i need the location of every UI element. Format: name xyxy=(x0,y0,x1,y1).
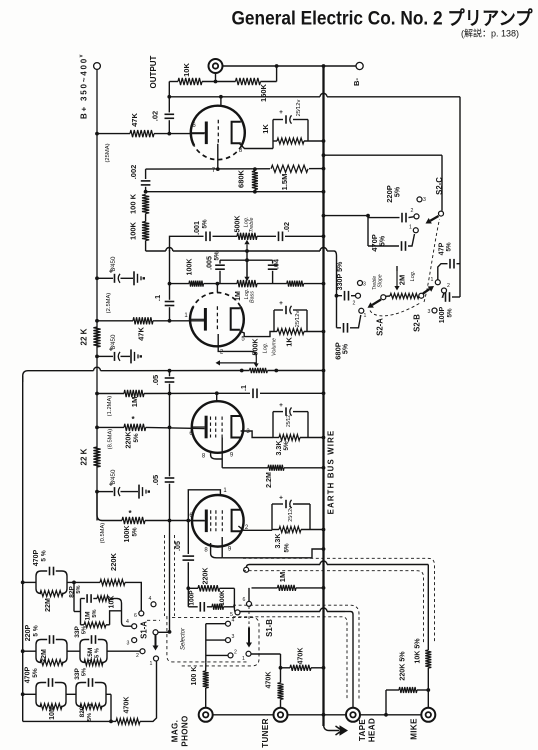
svg-text:2: 2 xyxy=(447,283,450,289)
wire B+ rail xyxy=(96,69,98,520)
wire tube1 plate-top stub xyxy=(220,97,222,106)
wire B- line xyxy=(223,65,360,67)
svg-text:2: 2 xyxy=(136,653,139,659)
svg-text:150K: 150K xyxy=(259,83,268,102)
TAPE HEAD terminal xyxy=(346,708,360,722)
switch contact S2-C 2 xyxy=(414,214,419,219)
svg-text:5%: 5% xyxy=(133,433,140,442)
MIKE terminal xyxy=(421,708,435,722)
svg-text:22 K: 22 K xyxy=(80,448,89,465)
svg-text:Slope: Slope xyxy=(378,274,384,287)
wire tube4 pin1 hook xyxy=(188,490,220,521)
resistor 220K tube4 grid xyxy=(188,587,198,589)
capacitor .02 coupling xyxy=(168,82,170,113)
capacitor .02 tone out xyxy=(278,232,280,242)
wire line B y251 xyxy=(146,250,166,252)
tape cable shield dashed xyxy=(233,605,359,700)
tape head cable core xyxy=(240,611,320,613)
svg-text:5%: 5% xyxy=(446,242,453,251)
wire grid line tube1 xyxy=(97,133,130,135)
capacitor 680P 5% xyxy=(337,327,342,329)
RIAA box 33P/1.5M xyxy=(80,640,107,663)
svg-text:S2-A: S2-A xyxy=(376,318,385,336)
wire RIAA bottom line xyxy=(23,720,116,722)
svg-text:v: v xyxy=(79,54,85,57)
svg-text:100K: 100K xyxy=(129,221,138,240)
svg-text:5%: 5% xyxy=(394,186,402,197)
resistor 10K 5% mike xyxy=(425,650,431,668)
mike cable shield dashed xyxy=(243,558,435,643)
wire line B to S2-A xyxy=(334,251,337,328)
switch arm S2-A xyxy=(372,300,381,305)
svg-text:330P 5%: 330P 5% xyxy=(336,261,344,290)
svg-text:1: 1 xyxy=(150,661,153,667)
svg-text:2.2M: 2.2M xyxy=(265,472,273,488)
svg-text:HEAD: HEAD xyxy=(368,718,377,742)
MAG PHONO terminal xyxy=(199,708,213,722)
svg-text:1: 1 xyxy=(431,277,434,283)
svg-text:5 %: 5 % xyxy=(95,648,101,658)
svg-text:470K: 470K xyxy=(123,696,131,714)
wire grid shield line x169.5 lower xyxy=(169,521,171,632)
svg-text:1M: 1M xyxy=(130,397,139,408)
dashed link S2-B to S2-C xyxy=(424,219,440,302)
potentiometer 500K Log Volume xyxy=(250,368,268,373)
svg-text:1.5M: 1.5M xyxy=(87,648,94,662)
resistor 470K riaa xyxy=(116,718,140,724)
ground 3 xyxy=(138,485,140,499)
capacitor .05 grid tube4 xyxy=(187,521,189,555)
svg-text:.05: .05 xyxy=(151,375,160,385)
svg-text:1: 1 xyxy=(409,225,412,231)
capacitor .1 tube3 top xyxy=(252,389,254,399)
wire volume line y370.7 xyxy=(23,371,94,382)
svg-text:4: 4 xyxy=(232,618,235,624)
svg-text:2: 2 xyxy=(411,208,414,214)
svg-text:1K: 1K xyxy=(261,124,270,134)
switch contact S2-B 2 xyxy=(442,288,447,293)
chassis ground arrow xyxy=(324,724,340,731)
potentiometer 2M treble slope xyxy=(381,295,386,300)
svg-text:MAG.: MAG. xyxy=(171,720,180,743)
svg-text:5%: 5% xyxy=(82,668,88,676)
svg-text:470K: 470K xyxy=(297,647,305,665)
wire tube2 plate stub top xyxy=(216,284,218,293)
capacitor .05 coupling tube4 xyxy=(169,427,171,476)
svg-text:Bass: Bass xyxy=(250,291,256,303)
wire tube3 heater U xyxy=(211,452,223,460)
svg-text:6: 6 xyxy=(243,597,246,603)
svg-text:33P: 33P xyxy=(74,626,81,638)
RIAA box 470P/10M xyxy=(36,683,66,707)
svg-text:.02: .02 xyxy=(151,111,160,121)
dashed selector box xyxy=(147,616,259,666)
ground 1 xyxy=(133,271,135,285)
tube V1 triode xyxy=(191,106,245,146)
wire grid line tube4 100K xyxy=(96,492,98,515)
wire tube1 pin7 stem xyxy=(217,144,219,169)
wire line C y283.6 xyxy=(170,283,190,285)
switch contacts S1-B column xyxy=(226,621,231,626)
svg-text:.005: .005 xyxy=(206,256,214,270)
cathode network tube1 1K + 25/12V xyxy=(272,120,274,149)
wire tube4 cathode lead pin2 xyxy=(238,526,272,530)
svg-text:(1.2MA): (1.2MA) xyxy=(107,396,113,417)
resistor 3.3K tube3 xyxy=(273,437,279,439)
capacitor .04 xyxy=(272,260,274,263)
svg-text:470P: 470P xyxy=(24,666,32,683)
svg-text:Volume: Volume xyxy=(272,338,278,356)
wire RIAA row1 xyxy=(23,581,36,583)
resistor 10K xyxy=(178,78,202,85)
svg-text:22M: 22M xyxy=(40,649,48,663)
switch contact S1-A 2 xyxy=(140,649,145,654)
svg-text:2M: 2M xyxy=(398,275,407,285)
wire line D y191.7 xyxy=(146,191,324,193)
resistor 1M S1B xyxy=(278,585,297,591)
svg-text:.04: .04 xyxy=(273,259,281,269)
svg-text:.1: .1 xyxy=(153,295,162,301)
svg-text:680K: 680K xyxy=(237,169,246,188)
RIAA row1 to contact 6 xyxy=(139,611,144,616)
svg-text:TUNER: TUNER xyxy=(261,718,270,748)
svg-text:100 K: 100 K xyxy=(129,193,138,214)
wire feedback line y96.8 xyxy=(169,96,320,98)
wire tube3 cathode lead pin3 xyxy=(241,431,273,438)
svg-text:500K: 500K xyxy=(252,338,260,356)
mike cable core xyxy=(246,565,249,568)
switch contact S2-B 1 xyxy=(435,280,440,285)
tube V3 triode xyxy=(192,401,244,453)
wire output stem xyxy=(215,73,217,82)
switch arm S2-B xyxy=(423,289,429,293)
svg-text:4: 4 xyxy=(126,619,129,625)
wire grid line tube2 xyxy=(97,320,133,322)
svg-text:3: 3 xyxy=(428,309,431,315)
wire right vertical x460 xyxy=(459,97,461,297)
wire RIAA row3 xyxy=(23,693,36,695)
resistor 220K 5% mike xyxy=(386,689,399,691)
svg-text:EARTH BUS WIRE: EARTH BUS WIRE xyxy=(327,430,336,515)
svg-text:22M: 22M xyxy=(44,598,52,612)
svg-text:(2.5MA): (2.5MA) xyxy=(106,293,112,314)
svg-text:MIKE: MIKE xyxy=(410,718,419,740)
cathode network tube4 3.3K + 25/12V xyxy=(271,504,273,530)
wire 2.2M line xyxy=(222,467,268,469)
wire line A y169 xyxy=(146,168,324,171)
tube V4 triode xyxy=(192,495,244,547)
resistor 100K 5% grid4 xyxy=(122,517,145,524)
capacitor .1 coupling tube2 xyxy=(169,250,171,300)
svg-text:220K: 220K xyxy=(202,567,210,585)
earth bus wire xyxy=(322,66,324,726)
svg-text:1: 1 xyxy=(364,313,367,319)
capacitor .001 5% xyxy=(205,232,207,242)
B+ terminal xyxy=(94,63,101,70)
svg-text:820: 820 xyxy=(79,706,86,717)
switch contact S1-B 1 xyxy=(246,651,251,656)
wire 82P branch xyxy=(73,582,75,611)
resistor 150K xyxy=(236,78,261,85)
svg-text:82P: 82P xyxy=(69,586,76,598)
switch arm S1-B xyxy=(248,628,250,643)
switch contact S1-A 4 xyxy=(132,624,137,629)
svg-text:500K: 500K xyxy=(234,215,242,233)
svg-text:220P: 220P xyxy=(24,624,32,641)
capacitor 8/450V decoupling 1 xyxy=(97,277,113,279)
svg-text:25⁄12: 25⁄12 xyxy=(286,415,292,427)
svg-text:General Electric Co. No. 2: General Electric Co. No. 2 プリアンプ xyxy=(232,7,534,30)
treble wiper arm xyxy=(246,244,248,252)
svg-text:5%: 5% xyxy=(132,527,139,536)
svg-text:5 %: 5 % xyxy=(33,625,40,636)
wire 1M line S1B xyxy=(252,587,278,589)
wire tuner to S1-B contact xyxy=(251,653,281,655)
wire bridge y260 xyxy=(220,259,273,261)
svg-text:47K: 47K xyxy=(130,113,139,127)
svg-text:22 K: 22 K xyxy=(80,328,89,345)
switch contact S2-C 3 open xyxy=(417,197,422,202)
svg-text:5%: 5% xyxy=(76,585,82,593)
svg-text:OUTPUT: OUTPUT xyxy=(149,55,158,88)
wire S1-B contact stubs xyxy=(206,623,226,625)
capacitor 47P 5% xyxy=(438,264,448,280)
svg-text:.1: .1 xyxy=(240,385,248,391)
svg-text:3: 3 xyxy=(423,197,426,203)
resistor 22K lower xyxy=(93,447,100,467)
dashed link S1-B xyxy=(248,606,250,627)
svg-text:3.3K: 3.3K xyxy=(274,533,282,549)
svg-text:1M: 1M xyxy=(85,611,92,620)
wire phono-tuner line xyxy=(213,714,273,716)
capacitor 100P xyxy=(187,588,189,607)
capacitor .002 xyxy=(145,169,147,179)
svg-text:33P: 33P xyxy=(74,668,81,680)
svg-text:(25MA): (25MA) xyxy=(105,143,111,162)
svg-text:470P: 470P xyxy=(32,549,40,566)
svg-text:470K: 470K xyxy=(265,671,273,689)
svg-text:Selector: Selector xyxy=(181,627,187,650)
resistor 100K plate lower xyxy=(145,214,147,222)
svg-text:Log.: Log. xyxy=(410,271,416,282)
svg-text:100K: 100K xyxy=(186,258,194,276)
svg-text:10K: 10K xyxy=(108,595,116,609)
capacitor .05 coupling tube3 xyxy=(169,371,171,377)
svg-text:2: 2 xyxy=(234,650,237,656)
svg-text:Treble: Treble xyxy=(249,218,255,233)
wire 1M line y393.5 xyxy=(97,393,124,395)
RIAA box 220P/22M xyxy=(36,640,67,663)
svg-text:S2-B: S2-B xyxy=(413,314,422,332)
resistor 100K input xyxy=(212,604,224,610)
svg-text:.001: .001 xyxy=(193,221,201,235)
B- terminal xyxy=(356,62,363,69)
switch pivot S1-B xyxy=(248,588,250,602)
svg-text:+: + xyxy=(279,109,283,116)
svg-text:5%: 5% xyxy=(214,251,221,260)
wire S1-A pivot xyxy=(153,630,158,635)
svg-text:5 %: 5 % xyxy=(41,550,48,561)
svg-text:10M: 10M xyxy=(48,706,56,720)
wire tube2 cathode lead xyxy=(240,331,274,337)
OUTPUT terminal xyxy=(209,59,223,73)
wire tube2 pin2 stem to volume wiper xyxy=(218,334,256,357)
resistor 470K tuner vertical xyxy=(280,654,282,683)
svg-text:5%: 5% xyxy=(284,543,291,552)
svg-text:8⁄450: 8⁄450 xyxy=(110,469,117,484)
resistor 1.5M xyxy=(270,164,309,174)
wire to line B xyxy=(145,241,147,252)
resistor 100K bass left xyxy=(189,281,204,287)
tube V2 triode xyxy=(190,307,244,347)
svg-text:5%: 5% xyxy=(82,626,88,634)
svg-text:2: 2 xyxy=(353,301,356,307)
wire left feedback vertical xyxy=(22,376,24,721)
svg-text:100 K: 100 K xyxy=(190,666,198,686)
svg-text:3: 3 xyxy=(127,641,130,647)
switch contact S1-A open 4 xyxy=(151,602,156,607)
svg-text:10K 5%: 10K 5% xyxy=(414,638,422,664)
wire stub bus to S2-C caps xyxy=(324,215,369,217)
capacitor 220P 5% xyxy=(368,217,400,219)
resistor 3.3K tube4 xyxy=(272,529,279,531)
wire bottom to S1-A c1 xyxy=(140,661,157,721)
switch contact S1-A 1 xyxy=(154,656,159,661)
wire tube4 heater U xyxy=(211,543,223,558)
switch contact tape 5 xyxy=(234,609,235,613)
wiper 2M xyxy=(396,266,398,271)
svg-text:5%: 5% xyxy=(32,668,39,678)
svg-text:47P: 47P xyxy=(438,242,446,255)
switch contact S1-A 3 xyxy=(132,638,137,643)
capacitor 330P 5% xyxy=(337,295,343,297)
svg-text:3.3K: 3.3K xyxy=(275,440,283,456)
svg-text:(0.5MA): (0.5MA) xyxy=(100,523,106,544)
svg-text:1K: 1K xyxy=(285,337,294,347)
resistor 220K 5% xyxy=(124,424,146,431)
svg-text:Log.: Log. xyxy=(263,343,269,354)
resistor 47K tube1 xyxy=(130,130,154,137)
svg-text:3: 3 xyxy=(363,282,366,288)
switch contact S2-C 1 xyxy=(413,228,418,233)
wire tube4 cathode to bus xyxy=(222,549,323,558)
svg-text:100P: 100P xyxy=(438,306,446,323)
svg-text:220K: 220K xyxy=(125,431,133,449)
switch pivot S2-C xyxy=(439,211,444,216)
resistor 47K tube2 xyxy=(133,317,153,324)
svg-text:PHONO: PHONO xyxy=(181,715,190,746)
RIAA box 470P/22M xyxy=(36,571,67,594)
svg-text:1.5M: 1.5M xyxy=(280,174,289,191)
wire tone wiper to bass xyxy=(246,260,248,277)
resistor 1K tube1 xyxy=(273,140,277,142)
resistor 100K plate upper xyxy=(142,195,149,214)
svg-text:8⁄450: 8⁄450 xyxy=(110,256,117,271)
cathode network tube2 1K + 25/12V xyxy=(273,310,275,332)
svg-text:5%: 5% xyxy=(447,308,454,317)
svg-text:(解説：p. 138): (解説：p. 138) xyxy=(461,28,519,39)
switch contact S2-A 2 xyxy=(356,293,361,298)
switch contact S2-B 3 open xyxy=(432,308,437,313)
svg-text:4: 4 xyxy=(149,596,152,602)
svg-text:100K: 100K xyxy=(219,590,226,606)
capacitor 8/450V decoupling 3 xyxy=(97,491,113,493)
wire output line y81 xyxy=(169,81,178,83)
RIAA box 82P/1M xyxy=(80,599,82,625)
svg-text:+: + xyxy=(279,495,283,502)
capacitor .005 5% xyxy=(219,260,221,263)
volume wiper arm xyxy=(255,357,257,364)
resistor 2.2M xyxy=(268,465,284,471)
svg-text:.05: .05 xyxy=(174,541,182,551)
svg-text:B-: B- xyxy=(352,78,361,86)
svg-text:.002: .002 xyxy=(129,165,138,180)
resistor 1M plate tube3 xyxy=(124,390,144,397)
resistor 22K upper xyxy=(93,327,100,347)
svg-text:220K: 220K xyxy=(109,552,118,571)
resistor 470K horizontal xyxy=(281,667,291,669)
svg-text:(8.5MA): (8.5MA) xyxy=(108,429,114,450)
svg-text:1M: 1M xyxy=(278,572,287,582)
svg-text:25⁄12v: 25⁄12v xyxy=(296,100,302,117)
svg-text:S2-C: S2-C xyxy=(435,177,444,195)
RIAA box 33P/820 xyxy=(76,683,106,707)
wire grid line tube3 220K xyxy=(97,426,124,428)
svg-text:*: * xyxy=(286,531,289,538)
resistor 1K tube2 xyxy=(277,329,304,335)
ground 2 xyxy=(130,349,132,363)
svg-text:220K 5%: 220K 5% xyxy=(399,651,407,681)
svg-text:25⁄12v: 25⁄12v xyxy=(288,506,294,522)
resistor 100K phono xyxy=(205,669,207,671)
svg-text:100P: 100P xyxy=(189,590,196,606)
resistor 680K xyxy=(252,171,258,190)
switch arm S2-C xyxy=(430,216,438,221)
svg-text:5%: 5% xyxy=(202,219,209,228)
resistor bass right xyxy=(287,281,304,287)
svg-text:+: + xyxy=(279,300,283,307)
wire row1 to c6 xyxy=(140,582,142,611)
potentiometer 500K Log Treble xyxy=(237,233,257,240)
svg-text:5%: 5% xyxy=(87,713,93,721)
switch contact S2-A 1 xyxy=(359,308,364,313)
svg-text:8⁄450: 8⁄450 xyxy=(110,334,117,349)
svg-text:5%: 5% xyxy=(379,235,387,246)
svg-text:5%: 5% xyxy=(92,609,98,617)
capacitor 8/450V decoupling 2 xyxy=(97,355,113,357)
wire RIAA row2 xyxy=(23,650,36,652)
svg-text:10K: 10K xyxy=(182,63,191,77)
svg-text:3: 3 xyxy=(232,634,235,640)
switch contact S2-A 3 open xyxy=(358,281,363,286)
svg-text:1: 1 xyxy=(242,656,245,662)
potentiometer 1M Log Bass xyxy=(237,280,257,287)
svg-text:+: + xyxy=(279,402,283,409)
svg-text:.02: .02 xyxy=(283,222,291,232)
cathode network tube3 3.3K + 25/12 xyxy=(272,412,274,438)
wire right vertical x442 S2-C feed xyxy=(324,154,443,156)
svg-text:5%: 5% xyxy=(283,441,290,450)
svg-text:B+ 350~400: B+ 350~400 xyxy=(80,57,89,119)
svg-text:.05: .05 xyxy=(151,475,160,485)
resistor 220K riaa xyxy=(100,579,125,585)
TUNER terminal xyxy=(274,708,288,722)
svg-text:100K: 100K xyxy=(123,525,131,543)
svg-text:47K: 47K xyxy=(137,327,146,341)
wire treble line corner xyxy=(170,236,204,251)
svg-text:S1-B: S1-B xyxy=(265,619,274,637)
dashed link S2-A to S2-B xyxy=(370,303,420,316)
